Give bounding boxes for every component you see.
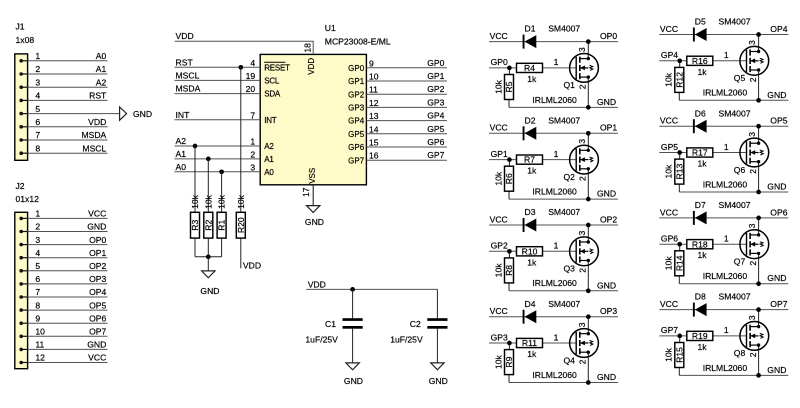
svg-text:13: 13 bbox=[369, 111, 379, 121]
svg-text:Q8: Q8 bbox=[734, 348, 746, 358]
svg-text:1: 1 bbox=[724, 50, 729, 60]
svg-text:VDD: VDD bbox=[308, 279, 326, 289]
svg-text:GP6: GP6 bbox=[661, 233, 678, 243]
svg-text:1: 1 bbox=[554, 57, 559, 67]
svg-text:GND: GND bbox=[344, 376, 363, 386]
svg-text:3: 3 bbox=[747, 315, 757, 320]
svg-text:A0: A0 bbox=[264, 168, 274, 177]
svg-text:SM4007: SM4007 bbox=[548, 24, 580, 34]
svg-text:OP1: OP1 bbox=[600, 123, 617, 133]
svg-text:8: 8 bbox=[35, 143, 40, 153]
svg-text:11: 11 bbox=[35, 340, 44, 350]
svg-text:Q2: Q2 bbox=[564, 172, 576, 182]
svg-text:GP2: GP2 bbox=[491, 241, 508, 251]
svg-text:SM4007: SM4007 bbox=[719, 108, 751, 118]
svg-text:1: 1 bbox=[554, 241, 559, 251]
svg-text:5: 5 bbox=[35, 104, 40, 114]
svg-text:IRLML2060: IRLML2060 bbox=[703, 363, 748, 373]
svg-text:GND: GND bbox=[87, 340, 106, 350]
svg-text:10k: 10k bbox=[217, 194, 227, 209]
svg-text:12: 12 bbox=[35, 353, 45, 363]
svg-text:MSDA: MSDA bbox=[176, 84, 201, 94]
svg-text:VDD: VDD bbox=[176, 31, 194, 41]
svg-text:1k: 1k bbox=[527, 257, 537, 267]
svg-text:OP5: OP5 bbox=[89, 300, 106, 310]
svg-text:IRLML2060: IRLML2060 bbox=[532, 370, 577, 380]
svg-text:6: 6 bbox=[35, 274, 40, 284]
svg-text:OP6: OP6 bbox=[89, 313, 106, 323]
svg-text:OP0: OP0 bbox=[600, 31, 617, 41]
svg-text:D7: D7 bbox=[695, 200, 706, 210]
svg-text:GND: GND bbox=[305, 217, 324, 227]
svg-text:R11: R11 bbox=[522, 338, 537, 348]
svg-text:J1: J1 bbox=[16, 22, 25, 32]
svg-text:1k: 1k bbox=[698, 67, 708, 77]
svg-text:10k: 10k bbox=[203, 194, 213, 209]
svg-text:10: 10 bbox=[35, 327, 45, 337]
svg-text:4: 4 bbox=[35, 91, 40, 101]
svg-text:D3: D3 bbox=[525, 207, 536, 217]
svg-text:1: 1 bbox=[724, 233, 729, 243]
svg-text:OP3: OP3 bbox=[89, 274, 106, 284]
svg-text:18: 18 bbox=[302, 43, 312, 53]
svg-text:3: 3 bbox=[35, 77, 40, 87]
svg-text:3: 3 bbox=[747, 40, 757, 45]
svg-text:3: 3 bbox=[577, 230, 587, 235]
svg-text:GND: GND bbox=[767, 90, 786, 100]
svg-text:3: 3 bbox=[747, 223, 757, 228]
svg-text:C2: C2 bbox=[410, 319, 421, 329]
svg-text:2: 2 bbox=[748, 261, 758, 266]
svg-text:2: 2 bbox=[577, 176, 587, 181]
svg-text:VCC: VCC bbox=[88, 353, 106, 363]
svg-text:OP6: OP6 bbox=[770, 207, 787, 217]
svg-text:8: 8 bbox=[35, 300, 40, 310]
svg-text:GP1: GP1 bbox=[427, 71, 444, 81]
svg-text:1k: 1k bbox=[698, 159, 708, 169]
svg-text:MSDA: MSDA bbox=[81, 130, 106, 140]
svg-text:R18: R18 bbox=[692, 239, 708, 249]
svg-text:D2: D2 bbox=[525, 115, 536, 125]
svg-text:R4: R4 bbox=[524, 63, 535, 73]
svg-text:10k: 10k bbox=[664, 256, 674, 271]
svg-text:14: 14 bbox=[369, 124, 379, 134]
svg-text:J2: J2 bbox=[16, 181, 25, 191]
svg-text:01x12: 01x12 bbox=[16, 194, 40, 204]
svg-text:OP4: OP4 bbox=[89, 287, 106, 297]
svg-text:RESET: RESET bbox=[264, 63, 290, 72]
svg-text:R8: R8 bbox=[504, 265, 514, 276]
svg-text:3: 3 bbox=[747, 132, 757, 137]
svg-text:1: 1 bbox=[554, 332, 559, 342]
svg-text:OP0: OP0 bbox=[89, 235, 106, 245]
svg-text:RST: RST bbox=[89, 91, 107, 101]
svg-text:20: 20 bbox=[246, 84, 256, 94]
svg-text:R6: R6 bbox=[504, 173, 514, 184]
svg-text:11: 11 bbox=[369, 85, 378, 95]
svg-text:19: 19 bbox=[246, 71, 256, 81]
svg-text:D6: D6 bbox=[695, 108, 706, 118]
svg-text:GP0: GP0 bbox=[348, 64, 365, 73]
svg-text:Q4: Q4 bbox=[564, 355, 576, 365]
svg-text:IRLML2060: IRLML2060 bbox=[703, 88, 748, 98]
svg-text:GP1: GP1 bbox=[348, 77, 365, 86]
svg-text:1k: 1k bbox=[698, 250, 708, 260]
svg-text:A2: A2 bbox=[264, 142, 274, 151]
svg-text:RST: RST bbox=[176, 57, 194, 67]
svg-text:D4: D4 bbox=[525, 299, 536, 309]
svg-text:R12: R12 bbox=[674, 72, 684, 88]
svg-text:1k: 1k bbox=[527, 166, 537, 176]
svg-text:A1: A1 bbox=[96, 64, 107, 74]
svg-text:7: 7 bbox=[35, 130, 40, 140]
svg-text:A2: A2 bbox=[176, 136, 187, 146]
svg-text:R10: R10 bbox=[522, 246, 538, 256]
svg-text:VDD: VDD bbox=[88, 117, 106, 127]
svg-text:3: 3 bbox=[35, 235, 40, 245]
svg-text:A0: A0 bbox=[96, 51, 107, 61]
svg-text:10k: 10k bbox=[664, 164, 674, 179]
svg-text:VCC: VCC bbox=[660, 299, 678, 309]
svg-text:GP3: GP3 bbox=[491, 332, 508, 342]
svg-text:1k: 1k bbox=[698, 342, 708, 352]
svg-text:1x08: 1x08 bbox=[16, 35, 35, 45]
svg-text:GND: GND bbox=[597, 189, 616, 199]
svg-text:SM4007: SM4007 bbox=[719, 200, 751, 210]
svg-text:4: 4 bbox=[250, 58, 255, 68]
svg-text:D8: D8 bbox=[695, 292, 706, 302]
svg-text:IRLML2060: IRLML2060 bbox=[703, 179, 748, 189]
svg-text:VCC: VCC bbox=[490, 123, 508, 133]
svg-text:2: 2 bbox=[748, 77, 758, 82]
svg-text:VDD: VDD bbox=[307, 58, 316, 75]
svg-text:Q6: Q6 bbox=[734, 165, 746, 175]
svg-text:U1: U1 bbox=[325, 23, 336, 33]
svg-text:OP3: OP3 bbox=[600, 306, 617, 316]
svg-text:D5: D5 bbox=[695, 17, 706, 27]
svg-text:10k: 10k bbox=[493, 354, 503, 369]
svg-text:GND: GND bbox=[429, 376, 448, 386]
svg-text:C1: C1 bbox=[325, 319, 336, 329]
svg-text:SM4007: SM4007 bbox=[548, 299, 580, 309]
svg-text:R3: R3 bbox=[190, 219, 200, 230]
svg-text:Q5: Q5 bbox=[734, 73, 746, 83]
svg-text:9: 9 bbox=[369, 58, 374, 68]
svg-text:SM4007: SM4007 bbox=[719, 17, 751, 27]
svg-text:R7: R7 bbox=[524, 155, 535, 165]
svg-text:VCC: VCC bbox=[490, 214, 508, 224]
svg-text:OP5: OP5 bbox=[770, 116, 787, 126]
svg-text:5: 5 bbox=[35, 261, 40, 271]
svg-text:Q7: Q7 bbox=[734, 257, 746, 267]
svg-text:GND: GND bbox=[767, 365, 786, 375]
svg-text:MSCL: MSCL bbox=[82, 143, 106, 153]
svg-text:3: 3 bbox=[577, 47, 587, 52]
svg-text:GND: GND bbox=[597, 280, 616, 290]
svg-text:GND: GND bbox=[597, 97, 616, 107]
svg-text:3: 3 bbox=[577, 322, 587, 327]
svg-text:1: 1 bbox=[35, 209, 40, 219]
svg-text:R5: R5 bbox=[504, 81, 514, 92]
svg-text:10k: 10k bbox=[664, 347, 674, 362]
svg-text:R15: R15 bbox=[674, 347, 684, 363]
svg-text:OP1: OP1 bbox=[89, 248, 106, 258]
svg-text:OP7: OP7 bbox=[89, 327, 106, 337]
svg-text:OP2: OP2 bbox=[89, 261, 106, 271]
svg-text:1k: 1k bbox=[527, 74, 537, 84]
svg-text:6: 6 bbox=[35, 117, 40, 127]
svg-text:GP7: GP7 bbox=[348, 156, 365, 165]
svg-text:GND: GND bbox=[767, 273, 786, 283]
svg-text:VCC: VCC bbox=[660, 116, 678, 126]
svg-text:R19: R19 bbox=[692, 331, 708, 341]
svg-text:R16: R16 bbox=[692, 56, 708, 66]
svg-text:GP4: GP4 bbox=[427, 111, 444, 121]
svg-text:SM4007: SM4007 bbox=[548, 115, 580, 125]
svg-text:VCC: VCC bbox=[490, 306, 508, 316]
svg-text:2: 2 bbox=[577, 84, 587, 89]
svg-text:GP7: GP7 bbox=[427, 150, 444, 160]
svg-text:IRLML2060: IRLML2060 bbox=[532, 95, 577, 105]
svg-text:10k: 10k bbox=[664, 72, 674, 87]
svg-text:16: 16 bbox=[369, 151, 379, 161]
svg-text:OP7: OP7 bbox=[770, 299, 787, 309]
svg-text:12: 12 bbox=[369, 98, 379, 108]
svg-text:10k: 10k bbox=[493, 171, 503, 186]
svg-text:7: 7 bbox=[35, 287, 40, 297]
svg-text:GND: GND bbox=[87, 222, 106, 232]
svg-text:10k: 10k bbox=[236, 194, 246, 209]
svg-text:2: 2 bbox=[35, 64, 40, 74]
svg-text:IRLML2060: IRLML2060 bbox=[532, 187, 577, 197]
svg-text:GP4: GP4 bbox=[661, 50, 678, 60]
svg-text:10k: 10k bbox=[493, 263, 503, 278]
svg-text:1uF/25V: 1uF/25V bbox=[390, 335, 423, 345]
svg-text:VCC: VCC bbox=[88, 209, 106, 219]
svg-text:R1: R1 bbox=[217, 219, 227, 230]
svg-text:2: 2 bbox=[577, 268, 587, 273]
svg-text:7: 7 bbox=[250, 110, 255, 120]
svg-text:2: 2 bbox=[748, 352, 758, 357]
svg-text:2: 2 bbox=[577, 359, 587, 364]
svg-text:OP4: OP4 bbox=[770, 24, 787, 34]
svg-text:GND: GND bbox=[200, 286, 219, 296]
svg-text:1: 1 bbox=[35, 51, 40, 61]
svg-text:1uF/25V: 1uF/25V bbox=[305, 335, 338, 345]
svg-text:9: 9 bbox=[35, 313, 40, 323]
svg-text:15: 15 bbox=[369, 138, 379, 148]
svg-text:GP3: GP3 bbox=[348, 104, 365, 113]
svg-text:INT: INT bbox=[264, 116, 277, 125]
svg-text:GP7: GP7 bbox=[661, 325, 678, 335]
svg-text:GP5: GP5 bbox=[427, 124, 444, 134]
svg-text:GP0: GP0 bbox=[491, 57, 508, 67]
svg-text:GP2: GP2 bbox=[348, 90, 365, 99]
svg-text:3: 3 bbox=[577, 139, 587, 144]
svg-text:D1: D1 bbox=[525, 24, 536, 34]
svg-text:R14: R14 bbox=[674, 255, 684, 271]
svg-text:A2: A2 bbox=[96, 77, 107, 87]
svg-text:2: 2 bbox=[748, 169, 758, 174]
svg-text:2: 2 bbox=[35, 222, 40, 232]
svg-text:3: 3 bbox=[250, 162, 255, 172]
svg-text:R17: R17 bbox=[692, 148, 708, 158]
svg-text:MCP23008-E/ML: MCP23008-E/ML bbox=[325, 36, 391, 46]
svg-text:GP4: GP4 bbox=[348, 117, 365, 126]
svg-text:1: 1 bbox=[250, 137, 255, 147]
svg-text:IRLML2060: IRLML2060 bbox=[703, 271, 748, 281]
svg-text:A0: A0 bbox=[176, 162, 187, 172]
svg-text:SDA: SDA bbox=[264, 90, 281, 99]
svg-text:GP5: GP5 bbox=[661, 142, 678, 152]
svg-text:Q1: Q1 bbox=[564, 80, 576, 90]
svg-text:GND: GND bbox=[767, 182, 786, 192]
svg-text:1: 1 bbox=[724, 142, 729, 152]
svg-text:GP6: GP6 bbox=[427, 137, 444, 147]
svg-text:GP5: GP5 bbox=[348, 130, 365, 139]
svg-text:GP3: GP3 bbox=[427, 97, 444, 107]
svg-text:GP2: GP2 bbox=[427, 84, 444, 94]
svg-text:1: 1 bbox=[724, 325, 729, 335]
svg-text:10k: 10k bbox=[190, 194, 200, 209]
svg-text:OP2: OP2 bbox=[600, 214, 617, 224]
svg-text:GP1: GP1 bbox=[491, 149, 508, 159]
svg-text:GND: GND bbox=[133, 109, 152, 119]
svg-text:SM4007: SM4007 bbox=[719, 292, 751, 302]
svg-text:A1: A1 bbox=[176, 149, 187, 159]
svg-text:Q3: Q3 bbox=[564, 264, 576, 274]
svg-text:R20: R20 bbox=[236, 217, 246, 233]
svg-text:GP6: GP6 bbox=[348, 143, 365, 152]
svg-text:VCC: VCC bbox=[660, 207, 678, 217]
svg-text:VCC: VCC bbox=[490, 31, 508, 41]
svg-text:17: 17 bbox=[301, 187, 311, 197]
svg-text:1: 1 bbox=[554, 149, 559, 159]
svg-text:IRLML2060: IRLML2060 bbox=[532, 278, 577, 288]
svg-text:VSS: VSS bbox=[308, 168, 317, 184]
svg-text:R13: R13 bbox=[674, 163, 684, 179]
svg-text:SCL: SCL bbox=[264, 77, 280, 86]
svg-text:10k: 10k bbox=[493, 79, 503, 94]
svg-text:VCC: VCC bbox=[660, 24, 678, 34]
svg-text:R9: R9 bbox=[504, 356, 514, 367]
svg-text:10: 10 bbox=[369, 72, 379, 82]
svg-text:INT: INT bbox=[176, 110, 191, 120]
svg-text:VDD: VDD bbox=[243, 260, 261, 270]
svg-text:MSCL: MSCL bbox=[176, 70, 200, 80]
svg-text:1k: 1k bbox=[527, 349, 537, 359]
svg-text:4: 4 bbox=[35, 248, 40, 258]
svg-text:GP0: GP0 bbox=[427, 58, 444, 68]
svg-text:A1: A1 bbox=[264, 155, 274, 164]
svg-text:SM4007: SM4007 bbox=[548, 207, 580, 217]
svg-text:2: 2 bbox=[250, 149, 255, 159]
svg-text:GND: GND bbox=[597, 372, 616, 382]
svg-text:R2: R2 bbox=[203, 219, 213, 230]
